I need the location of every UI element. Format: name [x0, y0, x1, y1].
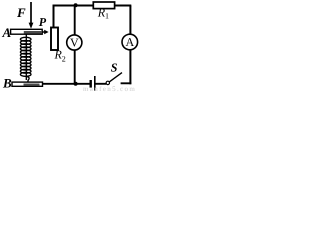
top wire: [53, 5, 132, 7]
voltmeter V: [67, 35, 82, 50]
svg-text:manfen5.com: manfen5.com: [83, 85, 136, 93]
svg-text:V: V: [70, 36, 79, 50]
svg-text:P: P: [39, 15, 47, 29]
svg-text:F: F: [16, 5, 26, 20]
battery cell: long thin electrode: [94, 76, 96, 91]
battery cell: short thick electrode: [90, 80, 92, 88]
force arrow F: [29, 2, 34, 29]
voltmeter branch wire: [74, 6, 76, 84]
plate A: [11, 29, 43, 34]
ammeter A: [122, 34, 138, 50]
svg-text:2: 2: [62, 55, 66, 64]
wire battery to switch: [96, 83, 107, 85]
bottom wire right: [121, 82, 132, 84]
switch S blade: [109, 73, 122, 82]
svg-text:A: A: [125, 35, 134, 49]
junction node top: [74, 3, 78, 7]
plate B: [12, 82, 43, 86]
resistor R1: [93, 2, 114, 9]
svg-text:1: 1: [105, 12, 109, 21]
svg-text:B: B: [2, 76, 12, 91]
junction node bottom: [74, 82, 78, 86]
right wire: [129, 6, 131, 85]
rheostat R2 wire to top: [53, 5, 55, 28]
rheostat R2: [51, 28, 58, 51]
switch S pivot: [106, 81, 109, 84]
bottom wire left: [42, 83, 90, 85]
wiper arrow P: [42, 30, 48, 34]
spring: [20, 34, 31, 82]
svg-text:S: S: [111, 60, 118, 74]
